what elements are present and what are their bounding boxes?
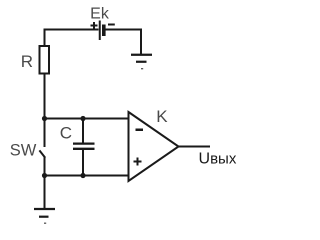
op-amp U1 comparator triangle (129, 112, 179, 181)
node junction top capacitor (80, 116, 85, 121)
node junction bottom left (42, 173, 47, 178)
op-amp inverting input minus sign (136, 129, 144, 132)
op-amp non-inverting input plus sign (134, 158, 142, 166)
node junction top left (42, 116, 47, 121)
svg-text:K: K (156, 107, 168, 126)
wire bottom rail (node to op-amp non-inverting input) (45, 175, 129, 177)
wire resistor bottom to top rail node (44, 74, 46, 119)
node junction bottom capacitor (80, 173, 85, 178)
svg-text:C: C (60, 123, 72, 142)
wire battery - to right corner and down to ground (106, 30, 142, 55)
battery Ek long positive plate (99, 21, 101, 41)
ground (right, battery return) (131, 55, 152, 69)
wire top horizontal left segment (node corner to battery +) (44, 29, 99, 31)
wire top rail (node to op-amp inverting input) (45, 118, 129, 120)
capacitor C (73, 119, 95, 176)
svg-text:Ek: Ek (90, 5, 110, 22)
wire vertical from top corner down to resistor R (44, 29, 46, 47)
resistor R (40, 46, 50, 74)
svg-text:Uвых: Uвых (199, 151, 237, 168)
wire output (179, 146, 211, 148)
ground (bottom left) (34, 209, 55, 223)
svg-text:R: R (21, 52, 33, 71)
wire bottom node down to ground (44, 176, 46, 209)
battery Ek minus sign (108, 24, 115, 26)
switch SW (open) (39, 119, 45, 176)
battery Ek short negative plate (102, 25, 106, 37)
battery Ek plus sign (91, 22, 98, 29)
svg-text:SW: SW (10, 141, 37, 159)
